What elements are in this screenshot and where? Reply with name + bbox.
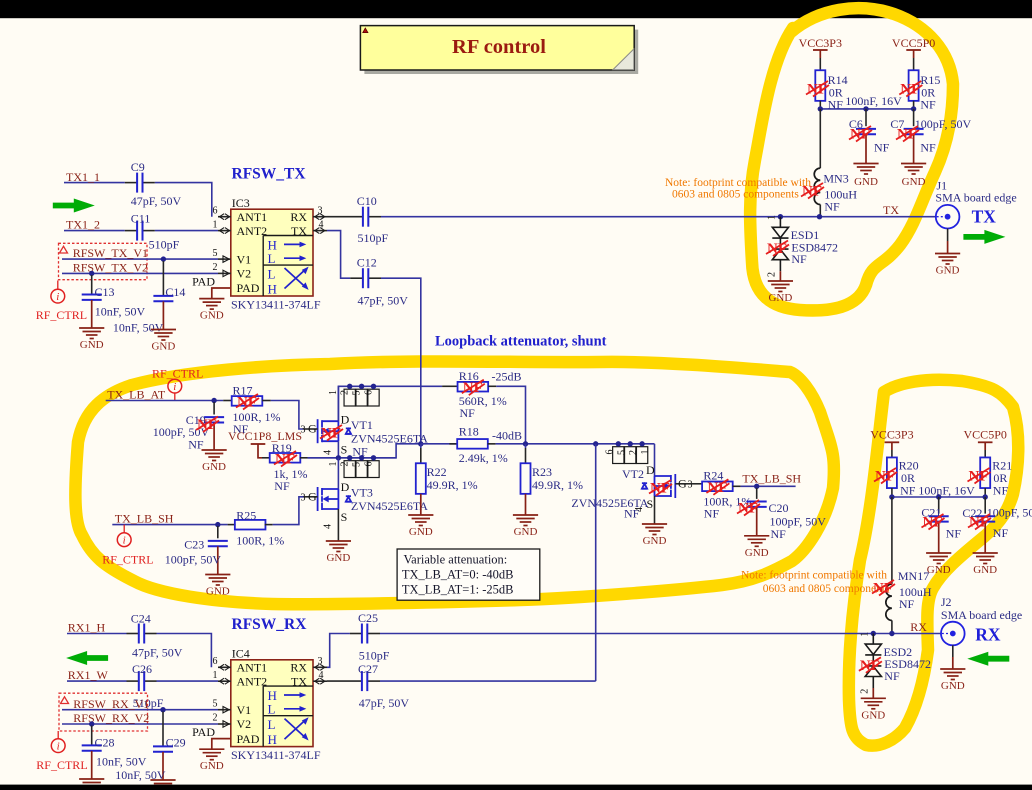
resistor R14 0R NF (819, 58, 821, 70)
junction R21 rail (983, 494, 988, 499)
svg-text:VCC3P3: VCC3P3 (870, 428, 913, 442)
svg-text:510pF: 510pF (149, 238, 180, 252)
svg-text:6: 6 (363, 390, 374, 395)
svg-text:NF: NF (874, 141, 890, 155)
svg-text:NF: NF (946, 526, 962, 540)
svg-text:Variable attenuation:: Variable attenuation: (404, 553, 508, 567)
svg-text:1: 1 (859, 632, 870, 637)
svg-text:NF: NF (824, 200, 840, 214)
svg-text:Note: footprint compatible wit: Note: footprint compatible with (741, 569, 887, 581)
green arrow RX in (967, 652, 1009, 666)
green arrow RX1 out (66, 651, 108, 665)
IC4 RF switch SKY13411-374LF (192, 656, 327, 749)
ground VT3 (326, 541, 351, 552)
wire RX1_H to C24 to IC4 pin 6 (67, 634, 211, 668)
junction C21 rail (936, 494, 941, 499)
svg-text:TX_LB_SH: TX_LB_SH (742, 471, 801, 485)
svg-text:NF: NF (460, 406, 476, 420)
top black bar (0, 0, 1032, 18)
connector J1 SMA (936, 205, 960, 229)
IC3 RF switch SKY13411-374LF (192, 205, 327, 298)
svg-text:S: S (341, 510, 348, 524)
capacitor C23 (217, 526, 219, 538)
resistor R23 49.9R (525, 444, 527, 448)
svg-text:RX1_H: RX1_H (68, 621, 106, 635)
wire R19 to VT1 source row (308, 444, 421, 458)
wire VT3 source to ground (337, 509, 339, 541)
wire C12 to attenuator (381, 278, 421, 444)
svg-text:C25: C25 (358, 611, 378, 625)
ESD diode ESD1 ESD8472 NF (772, 217, 788, 272)
svg-text:100pF, 50V: 100pF, 50V (165, 552, 222, 566)
svg-text:GND: GND (202, 461, 226, 473)
capacitor C14 (162, 261, 164, 296)
svg-text:NF: NF (920, 97, 936, 111)
transistor VT2 ZVN4525E6TA NF (642, 474, 676, 498)
svg-text:C13: C13 (95, 285, 115, 299)
svg-text:SMA board edge: SMA board edge (935, 191, 1016, 205)
capacitor C19 NF (213, 402, 215, 415)
inductor MN17 100uH NF (891, 497, 893, 584)
svg-text:TX1_1: TX1_1 (66, 170, 100, 184)
svg-text:NF: NF (771, 527, 787, 541)
svg-text:NF: NF (274, 479, 290, 493)
capacitor C29 (162, 712, 164, 747)
svg-text:VT3: VT3 (351, 486, 373, 500)
wire RFSW_RX_V2 to IC4 pin 2 (62, 723, 218, 725)
svg-text:2: 2 (340, 390, 351, 395)
ground C7 (901, 164, 926, 175)
ground C13 (79, 328, 104, 339)
junction C28 tap (89, 721, 94, 726)
svg-text:GND: GND (768, 292, 792, 304)
svg-text:RFSW_TX: RFSW_TX (232, 166, 307, 183)
svg-text:G: G (308, 489, 317, 503)
wire R16 to R18 row (496, 386, 525, 444)
wire VT2 source to ground (654, 496, 656, 524)
svg-text:C26: C26 (132, 662, 152, 676)
svg-text:G: G (678, 476, 687, 490)
capacitor C10 (327, 216, 363, 218)
dashed box RFSW_RX_V1/V2 (59, 693, 148, 731)
svg-text:2: 2 (859, 689, 870, 694)
svg-text:VCC5P0: VCC5P0 (892, 36, 935, 50)
svg-text:J2: J2 (941, 595, 952, 609)
wire TX_LB_SH right (741, 485, 796, 487)
svg-text:ZVN4525E6TA: ZVN4525E6TA (351, 431, 428, 445)
svg-text:Note: footprint compatible wit: Note: footprint compatible with (665, 177, 811, 189)
resistor R15 0R NF (913, 58, 915, 70)
svg-text:0603 and 0805 components: 0603 and 0805 components (672, 188, 799, 200)
svg-text:S: S (341, 442, 348, 456)
dashed box RFSW_TX_V1/V2 (59, 243, 148, 279)
wire RX1_W to C26 to IC4 pin 1 (67, 680, 218, 682)
svg-text:VT2: VT2 (622, 467, 644, 481)
svg-text:TX_LB_AT=0: -40dB: TX_LB_AT=0: -40dB (402, 568, 514, 582)
svg-text:100nF, 16V: 100nF, 16V (918, 484, 975, 498)
svg-text:47pF, 50V: 47pF, 50V (359, 696, 410, 710)
junction C19 (211, 398, 216, 403)
svg-text:5: 5 (352, 391, 363, 396)
svg-text:GND: GND (936, 265, 960, 277)
header VT1 drain pins (344, 386, 379, 406)
junction MN17 on RX wire (889, 631, 894, 636)
svg-text:R23: R23 (532, 465, 552, 479)
ground C22 (973, 553, 998, 564)
svg-text:TX1_2: TX1_2 (66, 218, 100, 232)
svg-text:0603 and 0805 components: 0603 and 0805 components (763, 583, 890, 595)
svg-text:10nF, 50V: 10nF, 50V (96, 755, 147, 769)
svg-text:NF: NF (900, 483, 916, 497)
svg-text:GND: GND (902, 176, 926, 188)
svg-text:1: 1 (640, 450, 651, 455)
svg-text:C29: C29 (166, 736, 186, 750)
svg-text:4: 4 (634, 507, 645, 512)
yellow highlighter loop around TX output section (750, 8, 953, 310)
ground C6 (853, 164, 878, 175)
svg-text:RFSW_RX_V2: RFSW_RX_V2 (73, 711, 149, 725)
svg-text:C23: C23 (184, 537, 204, 551)
svg-text:100pF, 50V: 100pF, 50V (915, 117, 972, 131)
resistor R24 100R NF (689, 483, 702, 485)
junction MN3 on TX wire (817, 214, 822, 219)
svg-text:GND: GND (200, 760, 224, 772)
capacitor C7 NF (913, 109, 915, 126)
svg-text:GND: GND (643, 535, 667, 547)
transistor VT1 ZVN4525E6TA NF (318, 419, 352, 443)
svg-text:49.9R, 1%: 49.9R, 1% (532, 478, 583, 492)
svg-text:SKY13411-374LF: SKY13411-374LF (231, 748, 321, 762)
svg-text:NF: NF (920, 141, 936, 155)
wire VT1 drain to top row (337, 386, 339, 421)
svg-text:G: G (308, 422, 317, 436)
ground C28 (79, 779, 104, 790)
svg-text:NF: NF (884, 669, 900, 683)
green arrow TX1 input (53, 199, 95, 213)
green arrow TX out (963, 230, 1005, 244)
svg-text:RFSW_TX_V2: RFSW_TX_V2 (73, 261, 148, 275)
svg-text:GND: GND (745, 547, 769, 559)
svg-text:RF_CTRL: RF_CTRL (102, 552, 153, 566)
ground C23 (205, 575, 230, 586)
svg-text:GND: GND (941, 680, 965, 692)
wire RFSW_TX_V2 to IC3 pin 2 (62, 272, 218, 274)
svg-text:NF: NF (704, 506, 720, 520)
junction R18 row left (418, 441, 423, 446)
svg-text:TX: TX (883, 203, 899, 217)
svg-text:2: 2 (628, 450, 639, 455)
resistor R17 100R NF (223, 400, 232, 402)
resistor R16 560R NF (442, 385, 457, 387)
ground C21 (926, 553, 951, 564)
svg-text:GND: GND (927, 564, 951, 576)
wire RX net C25 to J2 (380, 633, 941, 635)
svg-text:47pF, 50V: 47pF, 50V (132, 646, 183, 660)
junction R20 rail (889, 494, 894, 499)
svg-text:D: D (646, 463, 655, 477)
svg-text:2.49k, 1%: 2.49k, 1% (459, 451, 508, 465)
svg-text:100nF, 16V: 100nF, 16V (845, 94, 902, 108)
svg-text:TX: TX (972, 207, 997, 227)
capacitor C6 NF (865, 109, 867, 126)
svg-text:C12: C12 (357, 256, 377, 270)
resistor R20 0R NF (891, 450, 893, 458)
resistor R18 2.49k (421, 443, 458, 445)
svg-text:IC4: IC4 (232, 647, 250, 661)
junction R16/R23 (523, 441, 528, 446)
capacitor C13 (91, 275, 93, 294)
wire TX_LB_AT (106, 400, 224, 402)
resistor R25 100R (228, 524, 236, 526)
junction C23 (215, 522, 220, 527)
power flag VCC5P0 (906, 49, 921, 51)
svg-text:100R, 1%: 100R, 1% (236, 534, 284, 548)
svg-text:VT1: VT1 (351, 418, 373, 432)
svg-text:NF: NF (791, 252, 807, 266)
svg-text:49.9R, 1%: 49.9R, 1% (427, 478, 478, 492)
wire top attenuation row (338, 386, 442, 421)
resistor R19 1k NF (262, 457, 270, 459)
power flag VCC3P3 (813, 49, 828, 51)
svg-text:D: D (341, 412, 350, 426)
svg-text:R18: R18 (459, 425, 479, 439)
junction ESD2 on RX wire (871, 631, 876, 636)
svg-text:GND: GND (514, 526, 538, 538)
wire TX1_2 to C11 to IC3 pin 1 (64, 230, 218, 232)
resistor R22 49.9R (420, 444, 422, 448)
ground ESD1 (768, 281, 793, 292)
svg-text:VCC3P3: VCC3P3 (799, 36, 842, 50)
svg-text:C20: C20 (769, 501, 789, 515)
ground R23 (513, 515, 538, 526)
svg-text:TX_LB_AT: TX_LB_AT (107, 388, 166, 402)
capacitor C11 (125, 230, 137, 232)
svg-text:SKY13411-374LF: SKY13411-374LF (231, 298, 321, 312)
svg-text:510pF: 510pF (358, 231, 389, 245)
transistor VT3 ZVN4525E6TA (318, 487, 352, 511)
wire VT2 drain (654, 444, 656, 476)
svg-text:2: 2 (767, 272, 778, 277)
svg-text:RX: RX (975, 625, 1001, 645)
svg-text:IC3: IC3 (232, 196, 250, 210)
svg-text:GND: GND (409, 526, 433, 538)
svg-text:C27: C27 (358, 662, 378, 676)
junction C20 (754, 484, 759, 489)
capacitor C21 NF (938, 497, 940, 514)
junction C14 tap on V1 (161, 256, 166, 261)
svg-text:6: 6 (604, 450, 615, 455)
svg-text:3: 3 (301, 492, 306, 503)
inductor MN3 100uH NF (819, 109, 821, 168)
svg-text:NF: NF (993, 526, 1009, 540)
capacitor C20 NF (756, 488, 758, 499)
svg-text:C24: C24 (131, 612, 151, 626)
svg-text:-40dB: -40dB (492, 429, 522, 443)
svg-text:RFSW_RX_V1: RFSW_RX_V1 (73, 697, 149, 711)
svg-text:4: 4 (323, 524, 334, 529)
svg-text:1: 1 (767, 215, 778, 220)
svg-text:GND: GND (200, 310, 224, 322)
wire C27 to loopback vertical (380, 680, 596, 682)
svg-text:C11: C11 (131, 212, 151, 226)
ground J1 (935, 254, 960, 265)
junction C6 rail (863, 106, 868, 111)
variable attenuation info box (397, 549, 540, 600)
wire mid row with VT1 source (308, 457, 397, 459)
capacitor C27 (327, 680, 362, 682)
svg-text:TX_LB_SH: TX_LB_SH (115, 512, 174, 526)
svg-text:TX_LB_AT=1: -25dB: TX_LB_AT=1: -25dB (402, 583, 514, 597)
svg-text:2: 2 (340, 462, 351, 467)
ground C20 (744, 536, 769, 547)
svg-text:510pF: 510pF (359, 649, 390, 663)
svg-text:SMA board edge: SMA board edge (941, 608, 1022, 622)
connector J2 SMA (941, 622, 965, 646)
note RF control (360, 26, 638, 74)
svg-text:3: 3 (301, 425, 306, 436)
junction C29 tap (160, 707, 165, 712)
svg-text:10nF, 50V: 10nF, 50V (95, 305, 146, 319)
capacitor C28 (91, 726, 93, 746)
svg-text:5: 5 (352, 462, 363, 467)
wire R25 to VT3 gate (273, 497, 304, 525)
svg-text:100pF, 50V: 100pF, 50V (987, 505, 1032, 519)
svg-text:GND: GND (861, 709, 885, 721)
svg-text:RFSW_TX_V1: RFSW_TX_V1 (73, 246, 148, 260)
svg-text:C28: C28 (95, 736, 115, 750)
svg-text:GND: GND (206, 586, 230, 598)
svg-text:R25: R25 (236, 508, 256, 522)
header VT3 drain pins (344, 458, 379, 478)
capacitor C25 (327, 634, 350, 668)
RF_CTRL sheet connector TX (51, 289, 65, 303)
junction RX loop vertical (593, 441, 598, 446)
wire TX_LB_SH left (112, 524, 227, 526)
svg-text:GND: GND (80, 339, 104, 351)
svg-text:3: 3 (688, 479, 693, 490)
svg-text:GND: GND (854, 176, 878, 188)
ground VT2 (642, 524, 667, 535)
svg-text:R22: R22 (427, 465, 447, 479)
ground C14 (151, 330, 176, 341)
svg-text:1: 1 (328, 462, 339, 467)
ground C19 (202, 450, 227, 461)
capacitor C24 (127, 633, 139, 635)
capacitor C22 NF (984, 497, 986, 514)
ESD diode ESD2 ESD8472 NF (865, 634, 881, 689)
svg-text:1: 1 (328, 390, 339, 395)
svg-text:4: 4 (323, 450, 334, 455)
resistor R21 0R NF (984, 450, 986, 458)
wire TX1_1 to C9 to IC3 pin 6 (64, 183, 212, 217)
RF_CTRL sheet connector attenuator bottom (117, 533, 131, 547)
ground IC4 PAD (199, 749, 224, 760)
svg-text:RF control: RF control (452, 36, 546, 58)
header VT2 drain pins (613, 444, 648, 464)
capacitor C26 (127, 680, 139, 682)
svg-text:RF_CTRL: RF_CTRL (36, 308, 87, 322)
svg-text:RF_CTRL: RF_CTRL (152, 367, 203, 381)
junction ESD1 on TX wire (778, 214, 783, 219)
svg-text:GND: GND (973, 564, 997, 576)
svg-text:Loopback attenuator, shunt: Loopback attenuator, shunt (435, 334, 607, 350)
svg-text:GND: GND (151, 341, 175, 353)
wire loopback vertical to RX side (595, 444, 597, 681)
svg-text:C9: C9 (131, 160, 145, 174)
svg-text:D: D (341, 480, 350, 494)
svg-text:GND: GND (326, 552, 350, 564)
ground J2 (940, 669, 965, 680)
wire VT1 source to VT3 drain (337, 458, 339, 489)
svg-text:RFSW_RX: RFSW_RX (232, 616, 308, 633)
capacitor C9 (125, 182, 137, 184)
svg-text:47pF, 50V: 47pF, 50V (131, 194, 182, 208)
svg-text:-25dB: -25dB (492, 370, 522, 384)
svg-text:RX1_W: RX1_W (68, 668, 109, 682)
wire RFSW_RX_V1 to IC4 pin 5 (62, 709, 218, 711)
junction C13 tap on V2 (89, 271, 94, 276)
power flag VCC3P3 RX (885, 441, 900, 443)
svg-text:RF_CTRL: RF_CTRL (36, 758, 87, 772)
wire RFSW_TX_V1 to IC3 pin 5 (62, 258, 218, 260)
ground IC3 PAD (199, 299, 224, 310)
wire R17 to VT1 gate (271, 401, 304, 430)
svg-text:NF: NF (899, 597, 915, 611)
bottom black bar (0, 785, 1032, 790)
wire pullup rail (820, 108, 913, 110)
svg-text:MN17: MN17 (898, 569, 929, 583)
yellow highlighter loop around loopback attenuator section (75, 361, 834, 604)
svg-text:ZVN4525E6TA: ZVN4525E6TA (351, 499, 428, 513)
RF_CTRL sheet connector RX (51, 739, 65, 753)
capacitor C12 (327, 231, 350, 279)
svg-text:MN3: MN3 (823, 172, 848, 186)
junction R14 rail (818, 106, 823, 111)
power flag VCC5P0 RX (978, 441, 993, 443)
svg-text:VCC5P0: VCC5P0 (964, 428, 1007, 442)
svg-text:C14: C14 (165, 285, 185, 299)
svg-text:47pF, 50V: 47pF, 50V (358, 294, 409, 308)
ground C29 (150, 780, 175, 790)
svg-text:NF: NF (993, 483, 1009, 497)
ground ESD2 (861, 698, 886, 709)
wire R18 to VT2 (496, 443, 655, 445)
yellow highlighter loop around RX output section (849, 380, 1018, 746)
svg-text:6: 6 (363, 462, 374, 467)
wire pullup rail RX (892, 496, 985, 498)
junction R15 rail (911, 106, 916, 111)
wire TX net C10 to J1 (381, 216, 936, 218)
svg-text:RX: RX (910, 620, 927, 634)
svg-text:C10: C10 (357, 194, 377, 208)
ground R22 (408, 515, 433, 526)
svg-text:5: 5 (616, 450, 627, 455)
